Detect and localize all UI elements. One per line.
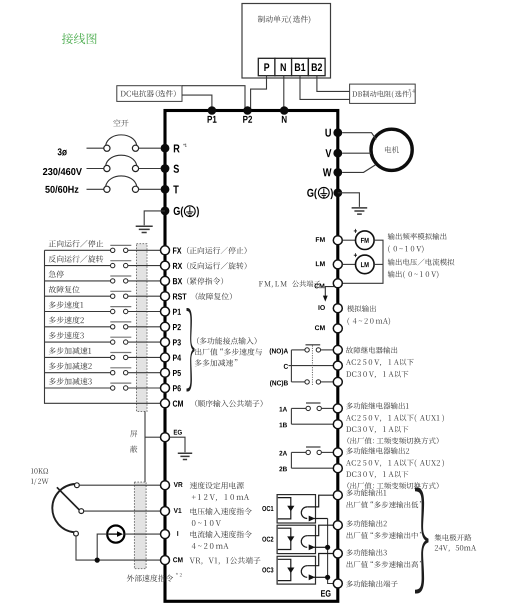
input phase wire S	[87, 168, 104, 170]
junction	[95, 558, 100, 563]
inverter main box	[165, 111, 338, 602]
OC2 transistor hook	[301, 536, 307, 548]
terminal EG	[161, 433, 170, 442]
wire FM meter to CM	[342, 240, 383, 283]
opto output OC1 box	[277, 495, 315, 523]
terminal T	[161, 185, 170, 194]
fault relay contact B	[291, 381, 305, 383]
terminal CM (sequence common)	[161, 399, 170, 408]
note multi-function input	[197, 337, 257, 344]
terminal C	[333, 361, 342, 370]
label 多步加减速2	[49, 362, 92, 369]
switch contact RX	[110, 260, 131, 262]
aux relay 1 bracket	[290, 408, 292, 424]
label 多步速度2	[49, 316, 84, 323]
terminal P2	[161, 322, 170, 331]
braking unit terminal P	[258, 58, 275, 75]
terminal RST	[161, 292, 170, 301]
opto output OC3 box	[277, 556, 315, 584]
terminal R	[161, 144, 170, 153]
switch wire P3	[45, 341, 111, 343]
breaker contact R	[104, 145, 110, 151]
OC1 transistor hook	[301, 507, 307, 519]
switch wire P6	[45, 387, 111, 389]
terminal P3	[161, 338, 170, 347]
terminal output OC3	[333, 549, 342, 558]
OC1 LED path	[278, 498, 291, 519]
breaker label 空开	[113, 119, 128, 126]
switch wire P5	[45, 372, 111, 374]
potentiometer 10KΩ 1/2W	[52, 484, 74, 532]
terminal S	[161, 164, 170, 173]
brace open collector	[415, 488, 429, 594]
wire U to motor	[342, 133, 376, 140]
DC reactor box DC电抗器（选件）	[117, 86, 182, 102]
aux relay 2 bracket	[290, 452, 292, 468]
ground (mains side)	[136, 226, 153, 232]
node P1	[208, 106, 217, 115]
switch contact RST	[110, 290, 131, 292]
switch wire P4	[45, 356, 111, 358]
label 多步加减速3	[49, 378, 92, 385]
OC3 collector wire	[307, 554, 333, 566]
shield drain wire	[144, 411, 146, 482]
terminal RX	[161, 261, 170, 270]
wire pot to VR	[79, 484, 160, 486]
switch wire P2	[45, 326, 111, 328]
label 反向运行／旋转	[49, 255, 104, 262]
wire LM to meter	[342, 263, 355, 265]
input phase wire R	[87, 147, 104, 149]
label 多步速度3	[49, 332, 84, 339]
label 屏蔽 (shield)	[130, 430, 137, 437]
wire DC reactor to P1	[182, 95, 212, 110]
wire P to DC bus	[251, 76, 267, 110]
terminal VR	[161, 481, 170, 490]
protective earth symbol in G label	[184, 206, 195, 217]
FM meter	[356, 231, 375, 250]
title 接线图	[62, 33, 97, 44]
switch contact FX	[110, 244, 131, 246]
terminal V	[333, 149, 342, 158]
input phase wire T	[87, 188, 104, 190]
aux relay 2 B wire	[291, 467, 333, 469]
braking unit terminal N	[275, 58, 292, 75]
terminal U	[333, 128, 342, 137]
OC1 collector wire	[307, 495, 333, 507]
opto output OC2 box	[277, 525, 315, 553]
label 故障复位	[49, 286, 80, 293]
wire LM meter join	[374, 263, 383, 265]
node P2	[243, 106, 252, 115]
terminal I	[161, 530, 170, 539]
protective earth symbol in right G label	[318, 187, 329, 198]
label 多步加减速1	[49, 347, 91, 354]
terminal output OC1	[333, 491, 342, 500]
OC3 LED path	[278, 559, 291, 580]
node N	[280, 106, 289, 115]
terminal CM (analog common)	[161, 556, 170, 565]
OC2 emitter wire	[314, 546, 328, 548]
braking unit terminal B2	[308, 58, 325, 75]
aux relay 2 contact	[291, 451, 306, 453]
ground (EG)	[178, 453, 192, 459]
potentiometer wiper	[57, 487, 79, 510]
wire B1 to DB resistor	[300, 76, 350, 100]
DB braking resistor box DB制动电阻(选件)	[350, 84, 416, 103]
switch wire RST	[45, 295, 111, 297]
relay linkage dotted	[311, 346, 313, 386]
braking unit box 制动单元(选件)	[242, 4, 331, 79]
switch wire BX	[45, 280, 111, 282]
terminal output common EG	[333, 579, 342, 588]
label 急停	[49, 271, 64, 278]
label 外部速度指令	[127, 575, 173, 582]
terminal P6	[161, 384, 170, 393]
terminal P4	[161, 353, 170, 362]
switch wire FX	[45, 249, 111, 251]
wire contact to terminal P4	[128, 356, 160, 358]
aux relay 1 contact	[291, 407, 306, 409]
shield screen strip (digital inputs)	[137, 244, 148, 412]
terminal P1	[161, 307, 170, 316]
label 多步速度1	[49, 301, 83, 308]
label 正向运行／停止	[49, 240, 104, 247]
switch contact P2	[110, 321, 131, 323]
wire contact to terminal P3	[128, 341, 160, 343]
terminal 2A	[333, 448, 342, 457]
wire pot wiper to V1	[84, 510, 161, 512]
breaker contact S	[104, 165, 110, 171]
OC2 collector wire	[307, 525, 333, 536]
terminal 2B	[333, 464, 342, 473]
fault relay common C wire	[289, 365, 334, 367]
terminal G right	[333, 188, 342, 197]
switch contact P1	[110, 306, 131, 308]
terminal CM 2	[333, 324, 342, 333]
wire breaker to S	[139, 168, 161, 170]
wire B2 to DB resistor	[317, 76, 350, 92]
wire contact to terminal P1	[128, 311, 160, 313]
switch contact P3	[110, 336, 131, 338]
wire contact to terminal RST	[128, 295, 160, 297]
shield screen strip (analog inputs)	[134, 482, 146, 569]
wire G to earth	[144, 211, 165, 225]
terminal FM	[333, 236, 342, 245]
terminal 1A	[333, 404, 342, 413]
terminal CM (FM LM common)	[333, 279, 342, 288]
wire N to DC bus	[283, 76, 285, 110]
motor 电机	[371, 129, 412, 170]
terminal G left	[161, 207, 170, 216]
wire FM to meter	[342, 239, 355, 241]
wire breaker to T	[139, 188, 161, 190]
wire V to motor	[342, 152, 371, 154]
switch wire P1	[45, 311, 111, 313]
relay armature bar	[306, 344, 321, 346]
terminal V1	[161, 507, 170, 516]
wire contact to terminal RX	[128, 265, 160, 267]
switch contact BX	[110, 275, 131, 277]
common emitter wire	[328, 519, 334, 584]
terminal (NC)B	[333, 377, 342, 386]
wire EG to earth	[170, 437, 185, 452]
terminal P5	[161, 368, 170, 377]
terminal (NO)A	[333, 345, 342, 354]
wire shield to EG	[145, 436, 160, 438]
wire W to motor	[342, 165, 375, 173]
wire current source to CM	[97, 534, 107, 560]
wire contact to terminal FX	[128, 249, 160, 251]
OC2 LED path	[278, 528, 291, 549]
terminal BX	[161, 276, 170, 285]
OC3 emitter wire	[314, 576, 328, 578]
wire breaker to R	[139, 147, 161, 149]
wire contact to terminal P6	[128, 387, 160, 389]
OC3 transistor hook	[301, 566, 307, 578]
emitter junction dots	[325, 545, 330, 550]
common wire bus for switches	[45, 250, 161, 403]
wire G to earth (motor side)	[338, 193, 360, 207]
wire pot bottom to CM	[76, 536, 160, 560]
wire current source to I	[124, 533, 160, 535]
braking unit terminal B1	[292, 58, 309, 75]
switch contact P6	[110, 382, 131, 384]
wire contact to terminal BX	[128, 280, 160, 282]
aux relay 1 B wire	[291, 423, 333, 425]
R superscript *1	[183, 144, 186, 147]
wire contact to terminal P5	[128, 372, 160, 374]
switch wire RX	[45, 265, 111, 267]
ground (motor side)	[352, 208, 368, 214]
brace multi-function inputs	[187, 308, 195, 391]
terminal LM	[333, 260, 342, 269]
LM meter	[356, 255, 375, 274]
switch contact P4	[110, 352, 131, 354]
OC1 emitter wire	[314, 518, 328, 520]
terminal W	[333, 168, 342, 177]
wire DC reactor to P2	[182, 86, 245, 110]
current source symbol	[107, 526, 124, 543]
terminal 1B	[333, 420, 342, 429]
arrow below CM	[325, 287, 334, 296]
terminal IO	[333, 304, 342, 313]
fault relay contact A	[291, 349, 305, 351]
breaker contact T	[104, 186, 110, 192]
terminal FX	[161, 246, 170, 255]
switch contact P5	[110, 367, 131, 369]
wire contact to terminal P2	[128, 326, 160, 328]
terminal output OC2	[333, 521, 342, 530]
fault relay bracket	[290, 350, 292, 382]
